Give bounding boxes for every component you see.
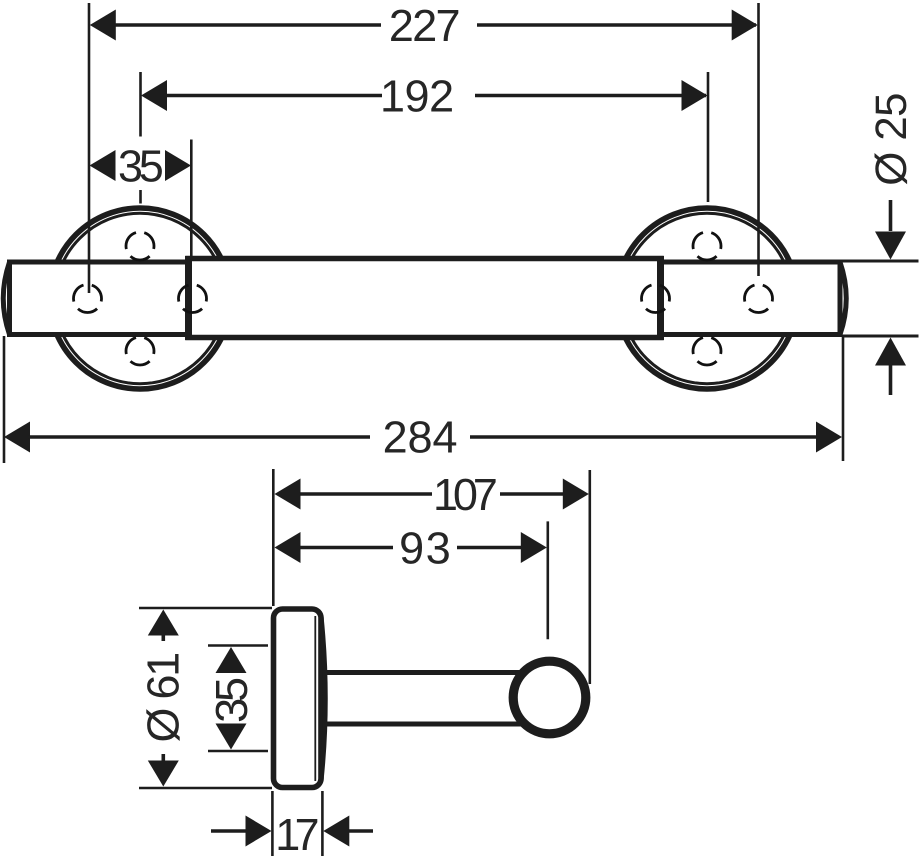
mounting hole right flange east bbox=[745, 285, 773, 313]
dimension diameter 61 (plate) bbox=[146, 610, 179, 787]
dimension 192 bbox=[141, 80, 708, 112]
grab bar central tube bbox=[188, 259, 661, 338]
side view: arm top line bbox=[323, 670, 524, 675]
extension lines 35 side (horizontal) bbox=[208, 646, 268, 752]
extension line 35 right (x=191.3) bbox=[190, 140, 193, 257]
mounting hole right flange north bbox=[693, 232, 721, 260]
junction line left bbox=[185, 256, 192, 340]
mounting hole right flange west bbox=[642, 285, 670, 313]
mounting hole right flange south bbox=[693, 337, 721, 365]
extension line 192 right (x=708) bbox=[707, 72, 710, 202]
extension line left (227 and 35, x=89) bbox=[88, 3, 91, 293]
mounting hole left flange north bbox=[126, 232, 154, 260]
junction line right bbox=[657, 256, 664, 340]
dimension 35 (between flange holes) bbox=[90, 150, 192, 182]
extension line 107 right (x=588) bbox=[588, 470, 591, 684]
extension line right (227, x=758.5) bbox=[757, 3, 760, 276]
extension lines diameter 61 (horizontal) bbox=[139, 608, 272, 788]
mounting hole left flange west bbox=[74, 285, 102, 313]
side view: ball end bbox=[513, 661, 586, 734]
side view: wall plate bbox=[274, 609, 326, 788]
mounting hole left flange east bbox=[179, 285, 207, 313]
extension line side left (107/93, x=274) bbox=[272, 469, 275, 606]
dimension 284 (overall length) bbox=[4, 336, 843, 463]
flange left (wall rosette, front view) bbox=[50, 208, 231, 389]
dimension 227 bbox=[90, 10, 758, 42]
dimension diameter 25 (bar) bbox=[842, 94, 919, 395]
flange right (wall rosette, front view) bbox=[617, 208, 798, 389]
grab bar left end piece bbox=[3, 262, 189, 335]
dimension 17 bbox=[211, 791, 373, 856]
extension line 192 left (x=140.5) bbox=[139, 72, 142, 204]
dimension 35 side bbox=[216, 647, 248, 750]
extension line 93 right (x=547.8) bbox=[546, 521, 549, 639]
mounting hole left flange south bbox=[126, 337, 154, 365]
dimension 107 bbox=[275, 479, 589, 511]
side view: arm bottom line bbox=[323, 722, 523, 727]
dimension 93 bbox=[275, 532, 547, 564]
grab bar right end piece bbox=[661, 262, 847, 335]
